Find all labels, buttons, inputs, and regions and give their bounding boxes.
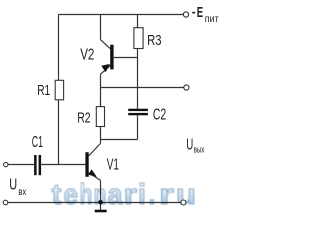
capacitor C2 plates: [128, 109, 148, 116]
wire R3 column lower (R3 to C2): [137, 49, 139, 109]
terminal output: [184, 85, 189, 90]
svg-text:V2: V2: [80, 46, 94, 63]
wire V2 emitter diagonal: [101, 66, 111, 75]
svg-text:вых: вых: [194, 145, 205, 155]
wire link R2 bottom to C2 bottom: [101, 139, 138, 141]
terminal -Eпит: [183, 12, 188, 17]
svg-text:пит: пит: [205, 14, 219, 25]
svg-text:e: e: [64, 179, 79, 211]
svg-text:u: u: [176, 179, 196, 211]
wire top rail: [58, 14, 183, 16]
svg-text:C2: C2: [153, 107, 166, 124]
transistor V2 emitter arrow: [101, 64, 110, 72]
terminal lower right: [181, 200, 186, 205]
wire left column lower (R1 to base line): [58, 100, 60, 165]
wire V1 emitter diagonal: [89, 173, 101, 181]
terminal input: [4, 162, 8, 166]
junction dot emitter/bottom rail: [98, 200, 103, 205]
svg-text:E: E: [197, 4, 203, 21]
svg-text:r: r: [159, 179, 174, 211]
svg-text:V1: V1: [107, 156, 119, 173]
transistor V2 base bar: [110, 45, 113, 70]
transistor V1 base bar: [85, 152, 88, 177]
resistor R1: [55, 80, 63, 100]
svg-text:C1: C1: [32, 134, 43, 151]
svg-text:R3: R3: [147, 32, 161, 49]
ground: [95, 210, 107, 213]
svg-text:.: .: [149, 179, 156, 211]
svg-text:h: h: [80, 179, 93, 211]
label -Eпит minus sign: [192, 12, 195, 14]
svg-text:r: r: [124, 179, 138, 211]
wire output line to terminal: [101, 87, 184, 89]
transistor V1 emitter arrow: [88, 169, 97, 176]
wire bottom rail: [8, 202, 181, 204]
wire V2 collector column: [100, 15, 102, 40]
wire V2 base lead: [114, 57, 138, 59]
watermark tehnari.ru: [52, 179, 197, 211]
wire C2 bottom column: [137, 115, 139, 139]
svg-text:R1: R1: [37, 82, 50, 99]
svg-text:U: U: [9, 177, 17, 194]
svg-text:t: t: [52, 179, 62, 211]
terminal lower left: [3, 200, 8, 205]
svg-text:U: U: [186, 137, 193, 154]
resistor R3: [134, 28, 143, 49]
wire R3 column upper (rail to R3): [137, 15, 139, 28]
wire V1 collector diagonal: [89, 143, 101, 156]
wire input terminal to C1: [8, 164, 34, 166]
wire V2 collector diagonal: [101, 40, 111, 49]
wire left column upper (rail to R1): [58, 15, 60, 81]
resistor R2: [96, 107, 104, 127]
wire C1 to V1 base: [41, 164, 85, 166]
svg-text:R2: R2: [77, 110, 90, 127]
svg-text:вх: вх: [18, 187, 26, 198]
wire V1 emitter column to ground: [100, 180, 102, 210]
wire V2 emitter / R2 top column: [100, 74, 102, 106]
wire R2 bottom column: [100, 127, 102, 144]
svg-text:i: i: [138, 179, 146, 211]
capacitor C1 plates: [34, 155, 41, 175]
svg-text:a: a: [108, 179, 124, 211]
